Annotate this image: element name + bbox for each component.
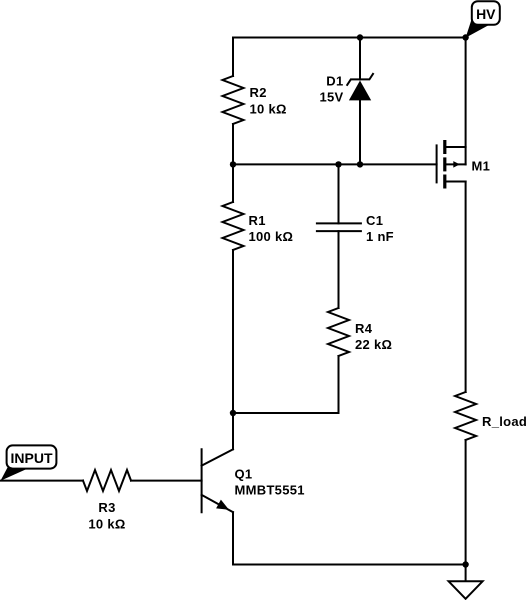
svg-text:C1: C1 xyxy=(366,213,383,228)
flag HV tail xyxy=(466,20,488,38)
junction dot: zener gate net xyxy=(357,161,363,167)
transistor Q1 base bar xyxy=(201,449,203,512)
mosfet M1 gate plate xyxy=(436,145,438,182)
wire: zener D1 bottom lead xyxy=(359,100,361,164)
svg-text:15V: 15V xyxy=(319,90,343,105)
wire: C1 top lead xyxy=(338,164,340,223)
wire: zener D1 top lead xyxy=(359,38,361,80)
resistor R4 xyxy=(328,308,349,356)
svg-text:R4: R4 xyxy=(355,321,373,336)
junction dot: collector node xyxy=(230,410,236,416)
wire: top rail (R2 top up and across to HV node) xyxy=(233,38,466,77)
svg-text:M1: M1 xyxy=(472,159,491,174)
svg-text:R2: R2 xyxy=(250,85,267,100)
wire: M1 source down to R_load xyxy=(465,182,467,393)
wire: C1 to R4 lead xyxy=(338,231,340,308)
svg-text:10 kΩ: 10 kΩ xyxy=(88,517,125,532)
junction dot: zener top node xyxy=(357,34,363,40)
transistor Q1 emitter diagonal xyxy=(202,495,233,512)
resistor R3 xyxy=(83,470,131,491)
wire: bottom rail xyxy=(233,564,466,566)
svg-text:10 kΩ: 10 kΩ xyxy=(250,102,287,117)
svg-text:D1: D1 xyxy=(326,74,343,89)
wire: R4 bottom lead across to collector node xyxy=(233,356,339,413)
mosfet M1 source lead xyxy=(446,181,465,183)
junction dot: ground node xyxy=(462,561,468,567)
junction dot: left rail gate net xyxy=(230,161,236,167)
wire: input wire to R3 xyxy=(1,480,84,482)
svg-text:Q1: Q1 xyxy=(235,467,253,482)
svg-text:R3: R3 xyxy=(98,500,115,515)
diode D1 zener cathode bar xyxy=(347,74,373,85)
flag INPUT tail xyxy=(1,468,31,481)
mosfet M1 body arrow xyxy=(453,161,460,168)
wire: middle rail (gate net) from left rail to M1 gate xyxy=(233,163,437,165)
mosfet M1 top channel bar xyxy=(443,140,446,154)
wire: Q1 emitter down to bottom rail xyxy=(232,512,234,564)
wire: ground stub xyxy=(465,565,467,582)
flag INPUT box xyxy=(7,445,57,468)
transistor Q1 emitter arrow xyxy=(216,500,229,510)
resistor R_load xyxy=(455,392,476,440)
svg-text:INPUT: INPUT xyxy=(11,450,53,466)
mosfet M1 bottom channel bar xyxy=(443,175,446,189)
svg-text:R1: R1 xyxy=(249,213,266,228)
wire: right rail from HV node down to M1 drain/body xyxy=(465,38,467,165)
svg-text:R_load: R_load xyxy=(482,414,526,429)
diode D1 triangle xyxy=(349,81,371,101)
resistor R2 xyxy=(223,76,244,124)
svg-text:22 kΩ: 22 kΩ xyxy=(355,337,392,352)
junction dot: C1 gate net xyxy=(335,161,341,167)
junction dot: HV node xyxy=(462,34,468,40)
capacitor C1 top plate xyxy=(317,222,361,224)
wire: R1 top lead xyxy=(232,164,234,202)
wire: R1 bottom lead down to Q1 collector xyxy=(232,250,234,449)
svg-text:1 nF: 1 nF xyxy=(366,229,394,244)
svg-text:MMBT5551: MMBT5551 xyxy=(235,483,305,498)
wire: R3 to Q1 base xyxy=(131,480,202,482)
mosfet M1 middle channel bar xyxy=(443,157,446,171)
resistor R1 xyxy=(223,202,244,250)
mosfet M1 drain lead xyxy=(446,146,465,148)
wire: R_load bottom lead xyxy=(465,440,467,565)
flag HV box xyxy=(472,1,500,25)
transistor Q1 collector diagonal xyxy=(202,449,233,465)
svg-text:HV: HV xyxy=(476,6,496,22)
wire: R2 bottom lead xyxy=(232,124,234,164)
mosfet M1 body lead xyxy=(446,163,465,165)
svg-text:100 kΩ: 100 kΩ xyxy=(249,229,294,244)
ground symbol xyxy=(449,581,483,599)
capacitor C1 bottom plate xyxy=(317,230,361,232)
